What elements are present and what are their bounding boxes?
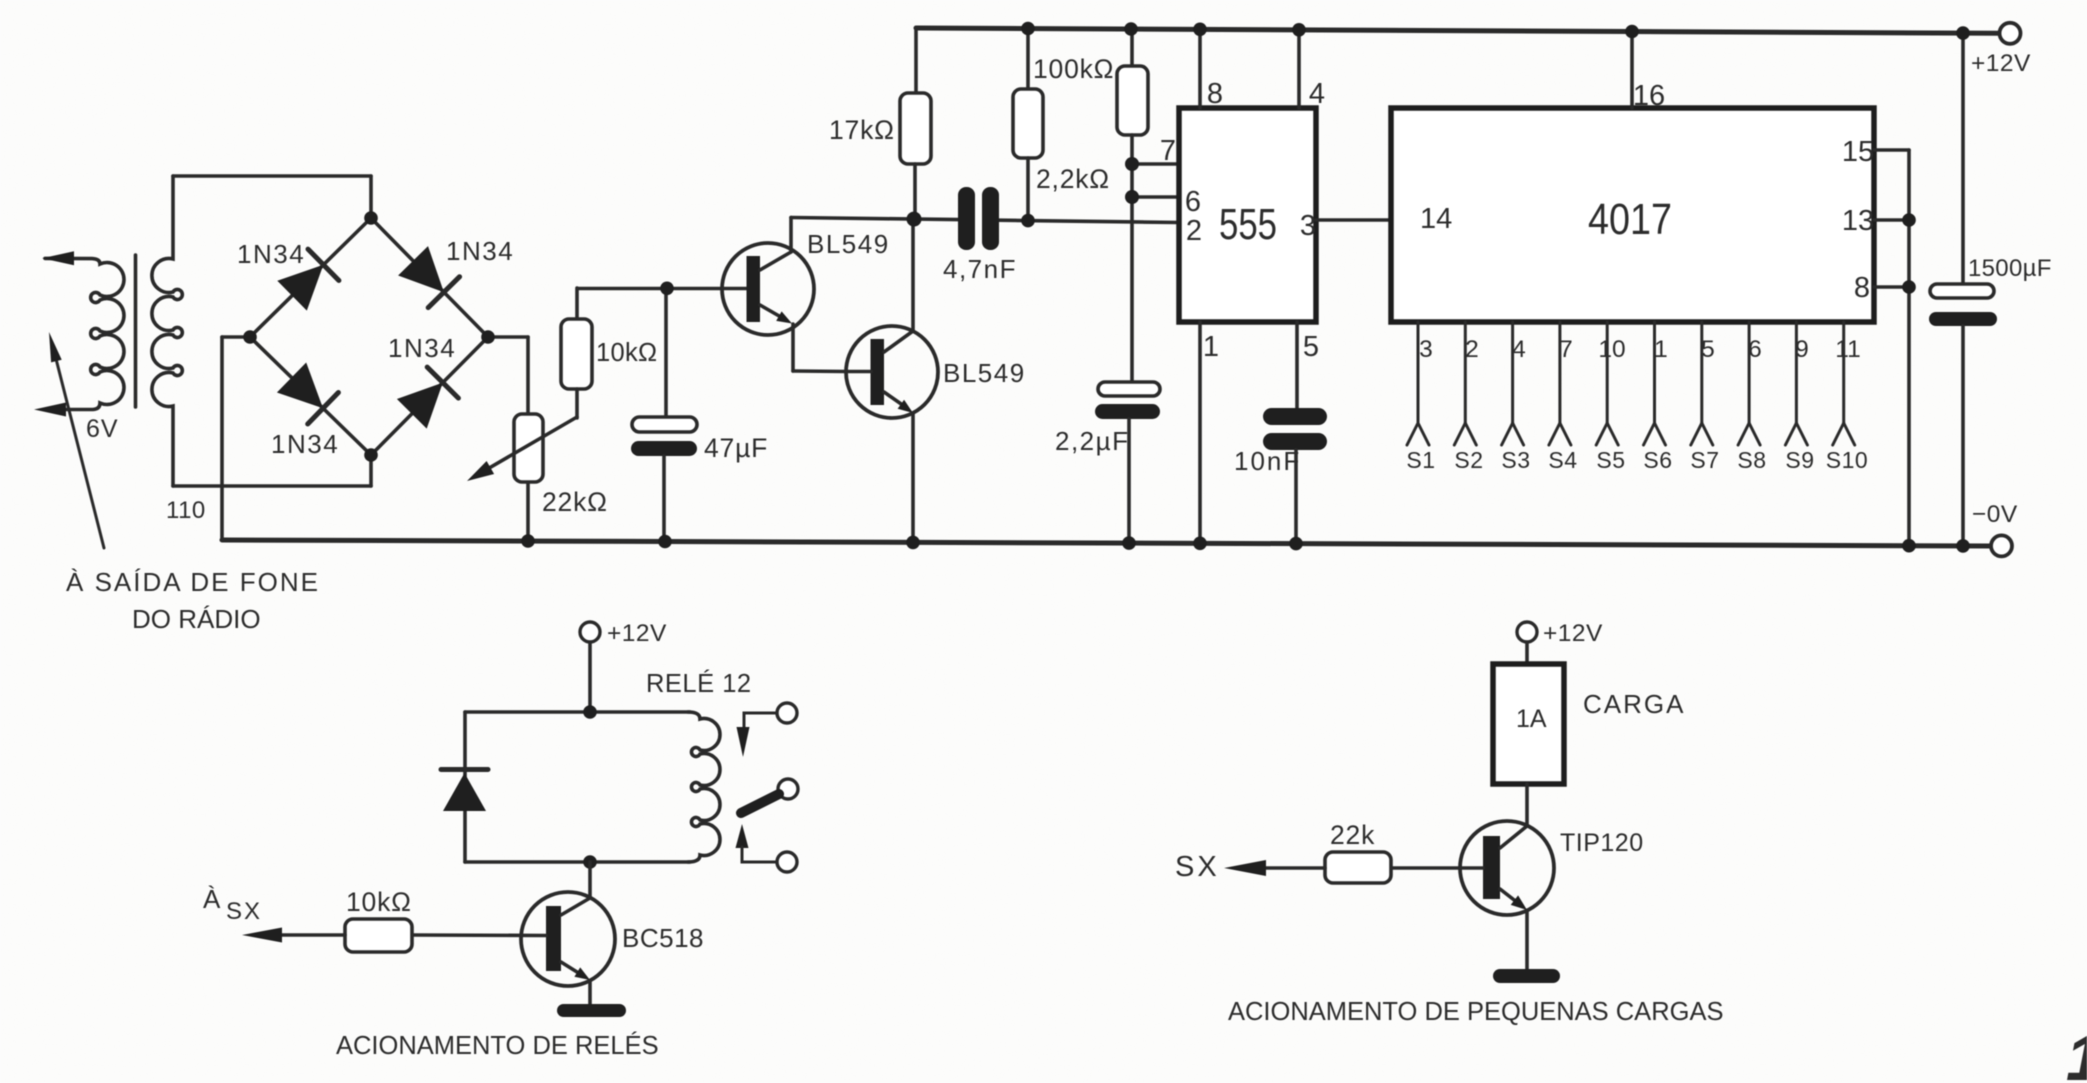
svg-text:SX: SX [1175, 851, 1220, 883]
svg-text:6: 6 [1748, 336, 1762, 363]
svg-text:10kΩ: 10kΩ [346, 887, 412, 917]
svg-text:S7: S7 [1690, 447, 1719, 473]
svg-text:22k: 22k [1330, 820, 1375, 850]
svg-text:À SAÍDA DE FONE: À SAÍDA DE FONE [66, 567, 320, 597]
svg-text:+12V: +12V [607, 620, 667, 647]
svg-text:ACIONAMENTO DE PEQUENAS CARGAS: ACIONAMENTO DE PEQUENAS CARGAS [1228, 998, 1723, 1026]
svg-text:1500µF: 1500µF [1968, 255, 2052, 282]
svg-text:1N34: 1N34 [237, 239, 305, 269]
svg-text:10: 10 [1598, 336, 1625, 363]
svg-text:8: 8 [1207, 78, 1223, 110]
svg-text:S10: S10 [1826, 447, 1868, 473]
svg-text:À: À [203, 884, 221, 914]
svg-text:6: 6 [1185, 186, 1201, 218]
svg-text:1N34: 1N34 [446, 236, 514, 266]
svg-text:15: 15 [1842, 136, 1874, 168]
svg-text:100kΩ: 100kΩ [1033, 54, 1114, 84]
svg-text:S1: S1 [1406, 447, 1435, 473]
svg-text:ACIONAMENTO DE RELÉS: ACIONAMENTO DE RELÉS [336, 1031, 659, 1060]
svg-text:DO RÁDIO: DO RÁDIO [132, 604, 261, 634]
svg-text:2,2kΩ: 2,2kΩ [1036, 164, 1110, 194]
svg-text:13: 13 [1842, 205, 1874, 237]
svg-text:TIP120: TIP120 [1560, 829, 1644, 857]
svg-text:RELÉ 12: RELÉ 12 [646, 669, 752, 698]
svg-text:17kΩ: 17kΩ [829, 115, 895, 145]
svg-text:1: 1 [2066, 1022, 2087, 1083]
svg-text:4: 4 [1512, 336, 1526, 363]
svg-text:−0V: −0V [1972, 501, 2018, 528]
svg-text:1: 1 [1203, 331, 1219, 363]
svg-text:+12V: +12V [1971, 50, 2031, 77]
svg-text:S4: S4 [1548, 447, 1577, 473]
svg-text:BC518: BC518 [622, 923, 704, 953]
svg-text:S8: S8 [1737, 447, 1766, 473]
svg-text:S9: S9 [1785, 447, 1814, 473]
svg-text:4017: 4017 [1588, 195, 1672, 244]
svg-text:1N34: 1N34 [388, 333, 456, 363]
svg-text:9: 9 [1795, 336, 1809, 363]
svg-text:7: 7 [1559, 336, 1573, 363]
svg-text:8: 8 [1854, 272, 1870, 304]
svg-text:+12V: +12V [1543, 620, 1603, 647]
svg-text:22kΩ: 22kΩ [542, 487, 608, 517]
svg-text:16: 16 [1633, 80, 1665, 112]
svg-text:1A: 1A [1516, 705, 1547, 733]
svg-text:S6: S6 [1643, 447, 1672, 473]
svg-text:7: 7 [1160, 135, 1176, 167]
svg-text:2: 2 [1465, 336, 1479, 363]
svg-text:2: 2 [1186, 215, 1202, 247]
svg-text:14: 14 [1420, 203, 1452, 235]
svg-text:555: 555 [1219, 200, 1277, 249]
svg-text:3: 3 [1419, 336, 1433, 363]
svg-text:3: 3 [1300, 210, 1316, 242]
svg-text:S5: S5 [1596, 447, 1625, 473]
svg-text:110: 110 [166, 497, 206, 524]
svg-text:S3: S3 [1501, 447, 1530, 473]
svg-text:SX: SX [226, 898, 262, 925]
svg-text:BL549: BL549 [943, 358, 1026, 388]
svg-text:1N34: 1N34 [271, 429, 339, 459]
svg-text:2,2µF: 2,2µF [1055, 426, 1130, 456]
svg-text:4: 4 [1309, 78, 1325, 110]
svg-text:10kΩ: 10kΩ [596, 339, 657, 367]
svg-text:1: 1 [1654, 336, 1668, 363]
svg-text:S2: S2 [1454, 447, 1483, 473]
svg-text:6V: 6V [86, 415, 119, 443]
svg-text:10nF: 10nF [1234, 446, 1301, 476]
svg-text:BL549: BL549 [807, 229, 890, 259]
svg-text:5: 5 [1701, 336, 1715, 363]
svg-text:11: 11 [1835, 336, 1860, 363]
svg-text:47µF: 47µF [704, 433, 768, 463]
svg-text:CARGA: CARGA [1583, 689, 1685, 719]
svg-text:5: 5 [1303, 331, 1319, 363]
svg-text:4,7nF: 4,7nF [943, 254, 1017, 284]
